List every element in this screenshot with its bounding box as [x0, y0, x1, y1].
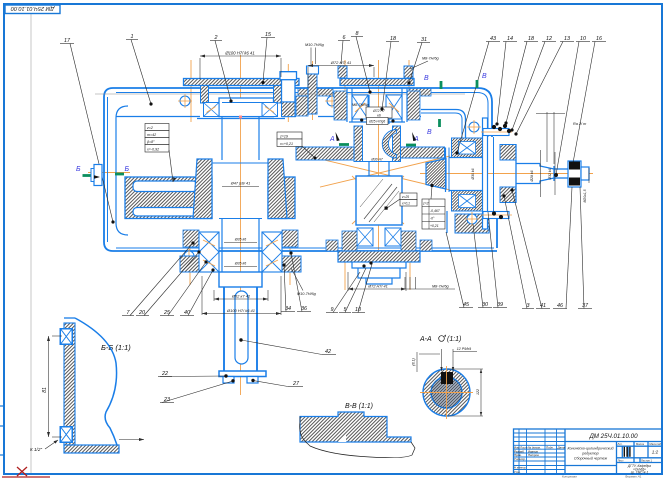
svg-text:Б: Б [125, 166, 130, 173]
svg-text:В: В [424, 75, 429, 82]
svg-text:Ø72 Н7/ 41: Ø72 Н7/ 41 [367, 284, 387, 288]
svg-text:(1:1): (1:1) [447, 336, 461, 343]
svg-text:Ø100 Н7/ k6 41: Ø100 Н7/ k6 41 [224, 51, 254, 56]
svg-text:Петров: Петров [528, 453, 539, 457]
svg-text:Б: Б [76, 166, 81, 173]
svg-text:Ø62 к7 41: Ø62 к7 41 [231, 294, 250, 299]
svg-text:Масштаб: Масштаб [650, 442, 662, 446]
svg-text:А-А: А-А [419, 336, 432, 343]
svg-text:8: 8 [356, 31, 359, 37]
svg-text:Ø25 Н7/g6: Ø25 Н7/g6 [368, 120, 385, 124]
svg-text:В-В (1:1): В-В (1:1) [345, 403, 373, 410]
svg-text:x=+0,21: x=+0,21 [279, 142, 293, 146]
svg-text:Копировал: Копировал [562, 475, 577, 479]
svg-text:27: 27 [292, 381, 300, 387]
svg-text:В: В [427, 129, 432, 136]
svg-text:Ø100 Н7/ k6 41: Ø100 Н7/ k6 41 [226, 308, 255, 313]
svg-text:81: 81 [42, 387, 48, 393]
svg-text:Т.контр.: Т.контр. [514, 457, 526, 461]
svg-text:18: 18 [390, 36, 396, 42]
svg-text:1:2: 1:2 [652, 450, 659, 455]
svg-text:Лист: Лист [618, 458, 625, 462]
svg-text:31: 31 [421, 37, 427, 43]
svg-text:В: В [482, 73, 487, 80]
svg-text:18: 18 [528, 36, 534, 42]
svg-text:Дата: Дата [557, 446, 566, 450]
svg-text:Ø28 k6: Ø28 k6 [530, 170, 534, 182]
svg-text:43: 43 [490, 36, 496, 42]
svg-text:6: 6 [343, 35, 346, 41]
svg-text:z=2: z=2 [146, 126, 153, 130]
svg-text:Ø35 k6: Ø35 k6 [234, 238, 247, 242]
svg-text:Ø35 k6: Ø35 k6 [234, 262, 247, 266]
svg-text:М8-7Н/6g: М8-7Н/6g [352, 103, 370, 107]
svg-text:13: 13 [564, 36, 570, 42]
svg-text:ДМ 25Ч.01.10.00: ДМ 25Ч.01.10.00 [10, 5, 55, 11]
svg-text:122: 122 [476, 389, 480, 395]
svg-text:x=-0,92: x=-0,92 [146, 148, 159, 152]
svg-text:22: 22 [161, 371, 168, 377]
svg-text:-0,467: -0,467 [430, 209, 440, 213]
svg-text:+0,21: +0,21 [430, 224, 439, 228]
svg-text:Подп.: Подп. [546, 446, 554, 450]
svg-text:М8-7Н/6g: М8-7Н/6g [422, 57, 440, 61]
svg-text:К 1/2": К 1/2" [30, 447, 42, 452]
svg-text:-0°: -0° [430, 217, 435, 221]
svg-text:16: 16 [596, 36, 602, 42]
svg-text:М10-7Н/6g: М10-7Н/6g [305, 43, 325, 47]
svg-text:17: 17 [64, 38, 71, 44]
svg-text:1: 1 [131, 34, 134, 40]
svg-text:Масса: Масса [636, 442, 644, 446]
svg-text:m=42: m=42 [147, 133, 156, 137]
svg-text:37: 37 [582, 303, 589, 309]
svg-text:2: 2 [214, 35, 218, 41]
svg-text:Ø30 Н7: Ø30 Н7 [370, 157, 383, 161]
svg-text:10: 10 [580, 36, 586, 42]
svg-text:к6: к6 [377, 114, 381, 118]
svg-text:Утв.: Утв. [514, 470, 521, 474]
svg-text:46: 46 [557, 303, 563, 309]
svg-text:Сборочный чертеж: Сборочный чертеж [574, 457, 608, 461]
svg-text:М20х1,5: М20х1,5 [583, 189, 587, 202]
svg-text:редуктор: редуктор [581, 451, 598, 455]
svg-text:Ø32 k6: Ø32 k6 [548, 168, 552, 180]
svg-text:Коническо-цилиндрический: Коническо-цилиндрический [568, 447, 614, 451]
svg-text:42: 42 [325, 349, 331, 355]
svg-text:23: 23 [163, 397, 170, 403]
svg-text:Ø47 js6/ 41: Ø47 js6/ 41 [230, 182, 250, 186]
svg-text:12: 12 [546, 36, 552, 42]
svg-text:М8-7Н/6g: М8-7Н/6g [432, 285, 450, 289]
svg-text:Формат А1: Формат А1 [625, 475, 642, 479]
svg-text:(8,1): (8,1) [412, 358, 416, 365]
svg-text:z=25: z=25 [401, 195, 409, 199]
svg-text:14: 14 [507, 36, 513, 42]
svg-text:Ø72 Н7/ 41: Ø72 Н7/ 41 [330, 60, 351, 65]
svg-text:z=19: z=19 [279, 134, 288, 138]
svg-text:Ra 2/ m: Ra 2/ m [573, 122, 586, 126]
svg-text:15: 15 [265, 32, 272, 38]
svg-text:Листов 1: Листов 1 [641, 458, 652, 462]
svg-text:z=2: z=2 [422, 202, 429, 206]
svg-text:Ø30 k6: Ø30 k6 [471, 168, 475, 180]
svg-text:Б-Б (1:1): Б-Б (1:1) [101, 343, 131, 352]
svg-text:А: А [329, 136, 335, 143]
svg-text:x=0,1: x=0,1 [401, 202, 410, 206]
svg-text:12 Р9/h9: 12 Р9/h9 [457, 347, 471, 351]
svg-text:М10-7Н/6g: М10-7Н/6g [297, 292, 317, 296]
svg-text:β=8°: β=8° [146, 140, 155, 144]
svg-text:Лит.: Лит. [618, 442, 623, 446]
svg-text:ДМ 25Ч.01.10.00: ДМ 25Ч.01.10.00 [588, 433, 638, 440]
